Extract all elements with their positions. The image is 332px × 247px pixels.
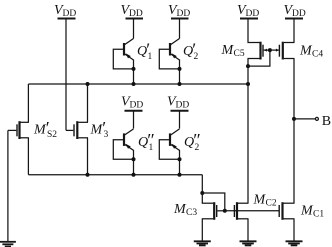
svg-text:1: 1 (149, 143, 154, 153)
svg-text:M: M (173, 202, 187, 217)
svg-text:DD: DD (292, 9, 306, 19)
svg-text:3: 3 (104, 130, 109, 140)
svg-text:DD: DD (130, 101, 144, 111)
svg-text:2: 2 (195, 143, 200, 153)
svg-text:DD: DD (246, 9, 260, 19)
svg-text:C5: C5 (234, 49, 245, 59)
svg-text:DD: DD (176, 101, 190, 111)
svg-text:M: M (221, 43, 235, 58)
svg-text:M: M (299, 44, 313, 59)
svg-text:C4: C4 (312, 50, 323, 60)
svg-text:M: M (300, 204, 314, 219)
svg-text:DD: DD (177, 9, 191, 19)
svg-text:DD: DD (63, 9, 77, 19)
svg-text:S2: S2 (47, 130, 57, 140)
svg-text:DD: DD (129, 9, 143, 19)
svg-text:2: 2 (194, 52, 199, 62)
svg-text:C3: C3 (186, 208, 197, 218)
svg-text:1: 1 (148, 52, 153, 62)
svg-text:M: M (253, 193, 267, 208)
svg-text:C1: C1 (313, 210, 324, 220)
svg-text:B: B (322, 114, 331, 129)
svg-text:C2: C2 (266, 199, 277, 209)
